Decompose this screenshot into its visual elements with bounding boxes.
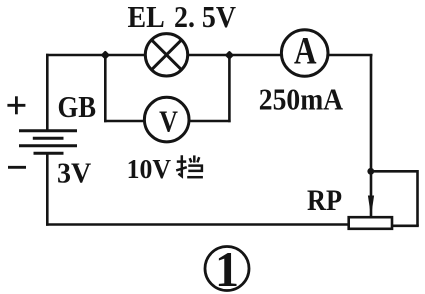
wire right vertical (ammeter to RP junction) <box>370 55 373 171</box>
wire left vertical battery positive <box>46 54 49 131</box>
svg-text:250mA: 250mA <box>259 83 343 117</box>
svg-text:A: A <box>294 29 317 72</box>
svg-text:3V: 3V <box>57 159 91 190</box>
node junction dot right (branch rejoin) <box>225 51 234 60</box>
battery GB plates <box>19 131 77 154</box>
svg-text:V: V <box>159 105 178 140</box>
label minus sign <box>8 166 26 169</box>
voltmeter V <box>144 97 189 142</box>
wire voltmeter branch right horizontal <box>189 120 231 123</box>
ammeter A <box>281 30 328 77</box>
node junction dot RP wiper <box>367 168 374 175</box>
svg-text:1: 1 <box>215 241 239 294</box>
wire lamp to ammeter <box>188 54 282 57</box>
lamp EL <box>145 34 187 76</box>
wire bottom horizontal <box>46 223 349 226</box>
wire voltmeter branch left horizontal <box>104 120 145 123</box>
wire top-left segment (battery + to lamp) <box>46 54 145 57</box>
label plus sign <box>7 96 25 114</box>
wire junction to far-right horizontal <box>371 170 418 173</box>
wire ammeter to top-right corner <box>328 54 373 57</box>
rheostat RP body <box>349 217 392 229</box>
svg-text:GB: GB <box>58 90 97 124</box>
wire voltmeter branch right vertical <box>228 55 231 122</box>
node junction dot left (lamp/voltmeter branch) <box>101 50 110 59</box>
svg-text:EL 2. 5V: EL 2. 5V <box>128 1 237 35</box>
wire RP right terminal horizontal <box>392 225 419 228</box>
wire voltmeter branch left vertical <box>104 55 107 122</box>
svg-text:RP: RP <box>307 184 342 217</box>
wire far-right vertical <box>416 170 419 226</box>
wire battery negative stub <box>46 154 49 226</box>
rheostat RP wiper arrowhead <box>368 196 374 217</box>
label dang character (挡) drawn as strokes <box>176 155 203 177</box>
wire RP wiper vertical <box>370 171 373 217</box>
svg-text:10V: 10V <box>127 154 171 185</box>
figure number circled 1 <box>205 247 249 291</box>
